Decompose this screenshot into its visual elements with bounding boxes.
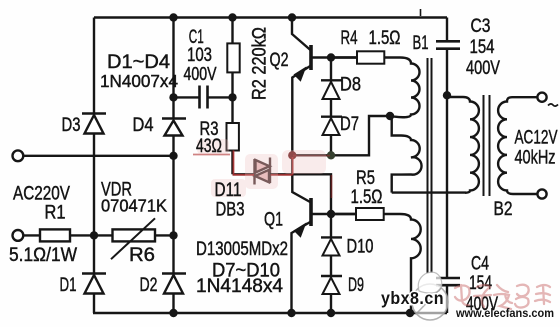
svg-text:400V: 400V — [466, 58, 500, 79]
wire top positive rail — [94, 16, 447, 18]
wire R3 to diac — [233, 173, 255, 175]
svg-text:ybx8.cn: ybx8.cn — [381, 288, 444, 308]
svg-text:103: 103 — [187, 45, 212, 66]
svg-text:D8: D8 — [340, 75, 361, 96]
wire bottom negative rail — [93, 312, 447, 314]
node C3 / B2 primary — [443, 91, 451, 99]
node R6 / right column — [169, 231, 177, 239]
node B1 W1 / W2 — [386, 112, 394, 120]
resistor R5 — [333, 208, 384, 220]
node R1 / left column — [90, 231, 98, 239]
node top rail / Q2 collector — [288, 13, 296, 21]
wire right bridge column — [172, 18, 174, 314]
svg-text:154: 154 — [470, 37, 495, 58]
svg-text:D1~D4: D1~D4 — [107, 52, 170, 73]
resistor R2 — [227, 18, 239, 98]
svg-text:AC12V: AC12V — [515, 128, 558, 149]
svg-text:1N4148x4: 1N4148x4 — [196, 276, 283, 297]
svg-text:R1: R1 — [45, 203, 66, 224]
transformer B1 winding W1 — [384, 58, 420, 118]
node mid point Q2 emitter — [288, 151, 296, 159]
capacitor C1 — [174, 86, 233, 109]
svg-text:Q1: Q1 — [264, 210, 283, 231]
node bottom rail / D2 column — [169, 309, 177, 317]
svg-text:1.5Ω: 1.5Ω — [351, 187, 383, 208]
svg-text:R5: R5 — [356, 168, 375, 189]
terminal output bottom — [537, 189, 546, 198]
node bottom rail / Q1 emitter — [287, 309, 295, 317]
transformer B2 primary winding — [447, 97, 479, 193]
diode D8 — [321, 58, 342, 117]
svg-text:C3: C3 — [471, 16, 491, 37]
svg-text:D9: D9 — [348, 275, 364, 296]
terminal AC input bottom — [13, 230, 24, 241]
svg-text:Q2: Q2 — [270, 50, 289, 71]
svg-text:D10: D10 — [347, 237, 374, 258]
varistor R6 VDR — [111, 218, 155, 259]
watermark logo circle — [412, 272, 448, 320]
svg-text:B2: B2 — [494, 199, 513, 220]
svg-text:D3: D3 — [62, 115, 81, 136]
wire R6 to right column — [155, 234, 174, 236]
svg-text:www.elecfans.com: www.elecfans.com — [455, 306, 554, 320]
transistor Q2 — [292, 18, 357, 156]
svg-text:D13005MDx2: D13005MDx2 — [196, 239, 288, 260]
diac D11 DB3 — [255, 158, 271, 185]
svg-text:154: 154 — [469, 273, 492, 294]
wire AC input top to bridge — [23, 155, 173, 157]
red highlight blobs around diac — [197, 139, 326, 197]
svg-text:400V: 400V — [184, 64, 217, 84]
node top rail / right column — [169, 13, 177, 21]
node top rail / R2 — [228, 13, 236, 21]
resistor R3 — [227, 97, 239, 174]
wire half-bridge cap column — [446, 95, 448, 278]
svg-text:B1: B1 — [413, 33, 429, 54]
svg-text:C4: C4 — [471, 254, 489, 275]
AC tilde mark — [548, 104, 558, 106]
wire diac to Q1 base — [270, 174, 331, 214]
svg-text:43Ω: 43Ω — [196, 136, 222, 157]
node Q2 base / R4 / D8 — [327, 53, 335, 61]
node D7 / mid wire — [327, 151, 335, 159]
scan tick on top rail — [420, 9, 422, 16]
svg-text:R6: R6 — [129, 245, 155, 266]
diode D2 — [162, 274, 186, 294]
svg-text:AC220V: AC220V — [13, 184, 70, 205]
svg-text:D1: D1 — [60, 275, 77, 296]
watermark red elecfans — [455, 285, 550, 309]
transformer B2 core — [484, 95, 490, 196]
transistor Q1 — [292, 155, 357, 313]
svg-text:D4: D4 — [133, 115, 154, 136]
terminal output top — [537, 93, 546, 102]
node Q1 base / R5 / D10 — [327, 210, 335, 218]
wire R1 to node — [70, 234, 113, 236]
capacitor C3 — [436, 18, 460, 96]
resistor R1 — [40, 229, 70, 241]
svg-text:1.5Ω: 1.5Ω — [369, 28, 401, 49]
wire mid node to B1 — [292, 116, 390, 155]
transformer B1 winding W3 — [384, 214, 421, 313]
transformer B2 secondary winding — [498, 97, 537, 194]
wire B1 W2 to capacitor mid node — [392, 191, 466, 193]
svg-text:D11: D11 — [215, 180, 242, 201]
diode D1 — [82, 274, 106, 294]
svg-text:1N4007x4: 1N4007x4 — [100, 71, 178, 91]
svg-text:D7: D7 — [340, 114, 359, 135]
red trigger-path annotation — [193, 151, 332, 199]
svg-text:DB3: DB3 — [216, 200, 245, 221]
diode D4 — [162, 119, 186, 136]
diode D3 — [82, 114, 106, 134]
terminal AC input top — [13, 150, 24, 161]
node C1 left tap — [169, 93, 177, 101]
node AC1 on right column — [169, 152, 177, 160]
svg-text:R4: R4 — [341, 28, 358, 49]
svg-text:R2 220kΩ: R2 220kΩ — [250, 27, 271, 100]
transformer B1 core — [428, 58, 432, 273]
node bottom rail / B1 W3 — [406, 309, 414, 317]
node bottom rail / D9 column — [327, 309, 335, 317]
transformer B1 winding W2 — [392, 116, 422, 193]
svg-text:5.1Ω/1W: 5.1Ω/1W — [9, 245, 77, 266]
diode D9 — [321, 276, 342, 313]
capacitor C4 — [436, 278, 460, 313]
wire AC input bottom to R1 — [23, 234, 40, 236]
resistor R4 — [333, 51, 385, 63]
wire left bridge column — [93, 18, 95, 314]
svg-text:40kHz: 40kHz — [515, 148, 556, 169]
svg-text:D2: D2 — [140, 275, 158, 296]
diode D10 — [321, 214, 342, 276]
svg-text:070471K: 070471K — [101, 196, 167, 216]
diode D7 — [321, 117, 342, 156]
node C1 / R2 / R3 — [228, 93, 236, 101]
watermark ybx8.cn — [381, 288, 444, 308]
